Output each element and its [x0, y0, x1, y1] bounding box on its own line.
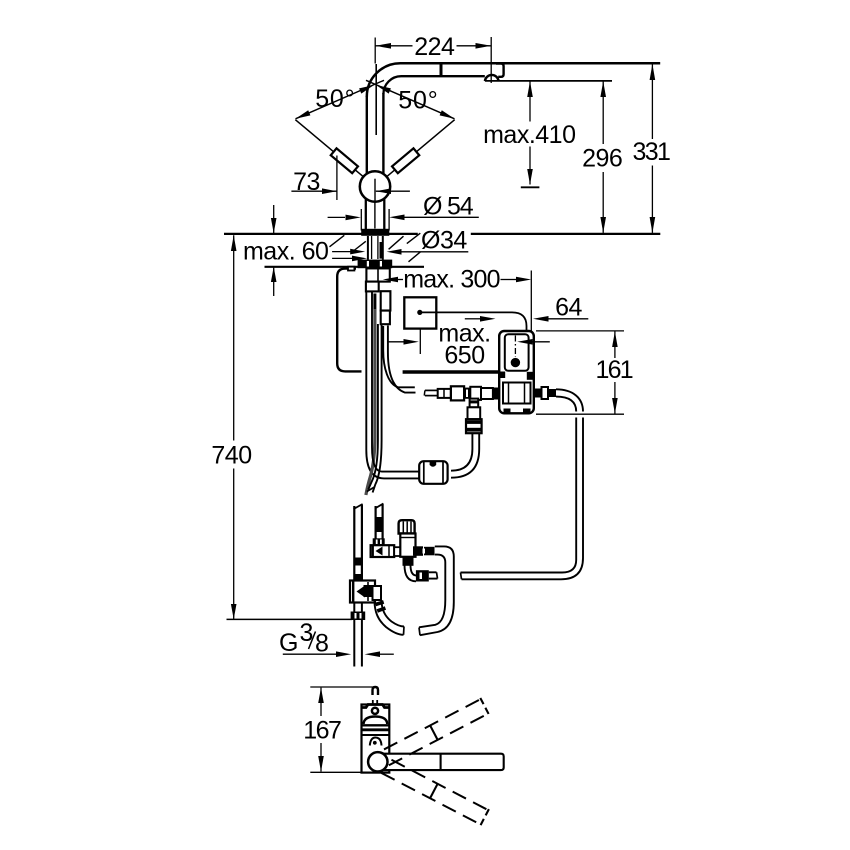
chain fitting block 1	[438, 389, 451, 398]
supply pipe 1 walls	[353, 506, 355, 581]
check valve lower block	[466, 419, 482, 433]
dimension 73 extension line	[336, 156, 338, 201]
dimension 161 top extension	[536, 330, 624, 332]
chain fitting block 3 black	[464, 388, 470, 399]
angle valve 2 cap	[399, 520, 415, 533]
pipe 1 lower nut	[351, 612, 366, 621]
svg-text:73: 73	[293, 168, 320, 196]
svg-text:167: 167	[303, 717, 341, 745]
check valve top connector	[470, 400, 476, 408]
cable segment black	[373, 294, 376, 310]
svg-text:max. 60: max. 60	[243, 238, 328, 266]
dimension max60 bottom arrow	[273, 267, 275, 296]
dimension 167 top extension	[310, 686, 376, 688]
valve unit inner cover	[505, 334, 529, 371]
dimension 224 extension line left	[374, 38, 376, 64]
hose connector block D	[381, 311, 390, 325]
hose weight	[419, 461, 447, 484]
dimension 167 bottom extension	[310, 771, 387, 773]
supply pipe 1 black bands	[354, 558, 363, 566]
svg-text:331: 331	[632, 138, 670, 166]
supply pipe 2 black section	[376, 517, 383, 532]
max410 extension line from head	[485, 80, 612, 82]
hose bundle line A	[366, 292, 419, 479]
dimension dia54 right arrow and shelf	[404, 216, 479, 218]
dimension 161 line and arrows	[614, 332, 616, 359]
faucet column left wall	[366, 96, 368, 174]
tee 2 top nut	[373, 538, 385, 545]
valve 2 bottom elbow	[405, 565, 417, 581]
bottom view dark band	[362, 724, 390, 726]
dimension dia34 left arrows	[332, 251, 350, 253]
svg-text:Ø 54: Ø 54	[423, 192, 474, 220]
spout tube inner bottom line	[383, 76, 484, 94]
counter hatch strokes	[330, 235, 345, 247]
G3/8 leader arrows	[283, 653, 337, 655]
svg-text:650: 650	[444, 342, 484, 370]
svg-text:8: 8	[315, 630, 328, 658]
countertop top line left of dia34 label	[224, 233, 418, 235]
pipe 1 lower section	[353, 603, 355, 612]
dimension max300 left arrow	[398, 279, 404, 281]
bottom view dome arc	[364, 717, 388, 725]
dimension 64 right arrow	[548, 318, 588, 320]
bottom view spout divider	[440, 754, 442, 770]
outlet hose lower run to open end	[461, 418, 577, 573]
pull-out hose storage loop	[337, 269, 361, 372]
angle valve 2 body	[400, 534, 415, 557]
hose connector block C	[381, 291, 391, 310]
valve unit side connectors	[499, 372, 505, 379]
svg-text:max.410: max.410	[483, 121, 575, 149]
spout tube outer top line	[367, 63, 660, 97]
hose to chain inner wall	[383, 326, 415, 387]
chain fitting block 4	[470, 387, 481, 400]
bottom view dashed arm lower	[381, 757, 489, 825]
countertop bottom line	[265, 266, 425, 268]
dimension max410 line and arrows	[529, 81, 531, 121]
angle valve 1 elbow black	[364, 585, 373, 597]
body cylinder below ball	[365, 199, 367, 230]
valve 2 bottom outlet	[403, 557, 414, 566]
angle valve 1 tee body	[350, 581, 375, 603]
bottom view mounting hole	[372, 708, 378, 714]
svg-text:50°: 50°	[315, 85, 355, 113]
dimension dia54 left arrow	[328, 216, 345, 218]
ball joint	[360, 171, 390, 201]
valve unit knob	[511, 358, 520, 367]
loop clip tab	[348, 267, 354, 271]
outlet hose open end cap	[461, 573, 462, 580]
angle valve 1 outlet hose inner	[382, 600, 405, 627]
hose bundle line D to cut	[368, 324, 378, 490]
svg-text:50°: 50°	[398, 86, 438, 114]
angle valve 1 hose bands	[376, 602, 384, 605]
svg-text:64: 64	[555, 294, 582, 322]
valve 2 hose right and down	[420, 546, 454, 635]
angle valve 1 outlet hose outer	[375, 601, 404, 635]
svg-text:161: 161	[596, 356, 633, 384]
aerator dome	[485, 75, 499, 81]
chain fitting block 2	[451, 386, 464, 400]
dimension 224 extension line right	[490, 37, 492, 83]
hose bundle line E to cut	[373, 324, 382, 493]
dimension dia34 right arrow	[401, 251, 468, 253]
bottom view body rectangle	[362, 705, 390, 773]
lever handle tilted left	[292, 116, 367, 181]
bottom view spout pivot cap	[368, 752, 387, 771]
dimension 167 line and arrows	[320, 688, 322, 716]
angle valve 2 right outlet black fittings	[413, 546, 423, 556]
control box extension line down	[419, 329, 421, 354]
spray head divider	[440, 63, 443, 77]
valve 2 elbow fitting black	[416, 570, 429, 581]
hose bundle line C	[372, 292, 419, 472]
dimension max300 right arrow	[501, 279, 517, 281]
valve unit feet	[504, 409, 511, 414]
dimension 740 line and arrows	[233, 235, 235, 440]
svg-text:max. 300: max. 300	[403, 266, 499, 294]
tee 2 body	[371, 545, 395, 557]
angle dimension 50 deg left chord	[296, 80, 385, 119]
angle valve 1 elbow connector	[373, 586, 382, 600]
max650 mounting bar thick	[403, 370, 500, 374]
chain connector to valve unit black	[493, 388, 499, 400]
dimension 73 line left with arrow	[291, 190, 337, 192]
check valve upper block	[470, 399, 479, 408]
lever handle tilted right	[382, 116, 457, 181]
bottom view line	[362, 734, 390, 736]
dimension 73 right arrow to centerline	[376, 190, 410, 192]
svg-text:740: 740	[211, 442, 251, 470]
valve unit knob arrow	[532, 341, 550, 343]
dimension max650 arrow	[388, 341, 405, 343]
dimension 740 bottom extension line	[227, 618, 353, 620]
angle dimension 50 deg right chord	[366, 80, 455, 119]
hose cut cap	[367, 487, 375, 492]
hose from weight to check valve	[451, 434, 479, 478]
dimension 331 line and arrows	[651, 64, 653, 139]
valve 2 stub hose to open end	[429, 571, 437, 573]
svg-text:G: G	[279, 629, 298, 657]
check valve middle block	[468, 407, 481, 419]
bottom view spout bar	[378, 754, 504, 770]
spray head end cap	[496, 64, 504, 77]
control cable to valve unit	[422, 312, 527, 331]
threaded shank below counter	[367, 236, 369, 260]
valve unit water block	[503, 383, 531, 404]
hose connector block A	[366, 268, 389, 281]
valve unit knob axis dash-dot	[514, 336, 516, 358]
pull-out hose line inside column	[375, 64, 377, 135]
supply pipe 2 walls	[375, 506, 377, 539]
bottom view small dome and dot	[370, 738, 382, 746]
dimension 296 line and arrows	[602, 81, 604, 144]
bottom view dashed arm upper	[381, 698, 489, 766]
svg-text:224: 224	[414, 33, 455, 61]
angle valve 1 hose open cap	[403, 627, 406, 635]
dimension max300 extension line	[530, 271, 532, 351]
escutcheon base plate	[361, 229, 389, 236]
valve unit outlet fittings	[534, 389, 542, 398]
bottom view top bulge edge	[362, 705, 390, 708]
hose connector block B	[366, 282, 379, 292]
dimension 64 left arrow	[465, 318, 481, 320]
mounting nut	[358, 260, 393, 269]
control box square	[404, 297, 436, 328]
hose to chain outer wall	[388, 326, 416, 393]
bottom view hose guide tab	[373, 687, 379, 695]
hose bundle cable gray	[366, 309, 375, 495]
chain hose nipple	[425, 389, 438, 391]
dimension 224 line and arrows	[375, 45, 412, 47]
countertop top line right of dia34 label	[471, 233, 661, 235]
chain fitting block 5	[481, 388, 493, 399]
svg-text:Ø34: Ø34	[421, 226, 467, 254]
outlet hose down to loop upper	[556, 397, 576, 412]
svg-text:296: 296	[582, 144, 622, 172]
faucet column right wall	[382, 93, 384, 174]
valve unit outer case	[499, 331, 534, 413]
dimension max60 top arrow	[273, 205, 275, 233]
dimension 161 bottom extension	[536, 413, 624, 415]
valve 2 hose inner wall	[419, 555, 445, 628]
